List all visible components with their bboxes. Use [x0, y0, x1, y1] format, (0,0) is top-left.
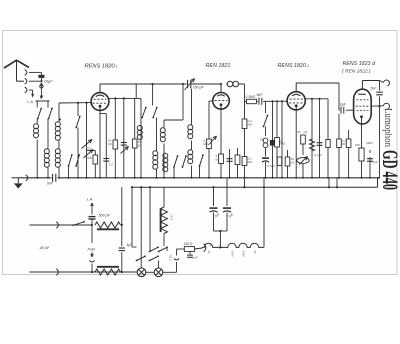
svg-text:45 W: 45 W: [40, 245, 51, 250]
svg-text:0,2MΩ: 0,2MΩ: [246, 95, 256, 99]
svg-text:50: 50: [297, 130, 301, 134]
svg-text:1,5: 1,5: [109, 163, 114, 167]
svg-text:5nF: 5nF: [371, 87, 378, 91]
svg-text:6µF: 6µF: [340, 103, 347, 107]
svg-text:0,1µF: 0,1µF: [314, 153, 322, 157]
svg-text:Feld: Feld: [88, 248, 96, 252]
svg-text:RENS 1820-2: RENS 1820-2: [278, 63, 310, 69]
svg-text:MΩ: MΩ: [203, 142, 208, 146]
svg-text:300: 300: [87, 156, 92, 160]
svg-text:1µF: 1µF: [373, 160, 378, 164]
svg-text:RENS 1823 d: RENS 1823 d: [343, 61, 376, 67]
svg-text:750 pF: 750 pF: [193, 86, 205, 90]
svg-text:500 pF: 500 pF: [99, 214, 111, 218]
svg-text:MΩ: MΩ: [281, 141, 286, 145]
svg-text:500: 500: [86, 147, 91, 151]
svg-text:7,5Ω: 7,5Ω: [169, 254, 173, 261]
svg-text:6080: 6080: [231, 251, 235, 258]
svg-text:Lumophon: Lumophon: [382, 108, 393, 147]
svg-text:40: 40: [253, 251, 257, 255]
svg-text:MΩ: MΩ: [248, 122, 253, 126]
svg-text:500: 500: [355, 143, 360, 147]
svg-text:L A: L A: [27, 99, 33, 104]
svg-text:REN 1821: REN 1821: [206, 63, 231, 69]
svg-text:150 Ω: 150 Ω: [184, 242, 193, 246]
svg-text:15 Ω: 15 Ω: [170, 214, 174, 221]
svg-text:40: 40: [207, 251, 211, 255]
svg-text:1µF: 1µF: [193, 256, 198, 260]
svg-text:5nF: 5nF: [257, 93, 264, 97]
svg-text:2MΩ: 2MΩ: [365, 141, 373, 145]
svg-text:0,5µF: 0,5µF: [268, 164, 276, 168]
svg-text:MΩ: MΩ: [248, 160, 253, 164]
svg-text:5nF: 5nF: [47, 182, 54, 186]
svg-text:10µF: 10µF: [44, 79, 53, 83]
svg-text:L A: L A: [87, 198, 93, 202]
svg-text:6040: 6040: [242, 251, 246, 258]
svg-text:RENS 1820-1: RENS 1820-1: [85, 64, 118, 70]
svg-text:GD 440: GD 440: [378, 150, 400, 190]
svg-text:( REN 1822 ): ( REN 1822 ): [342, 69, 371, 75]
